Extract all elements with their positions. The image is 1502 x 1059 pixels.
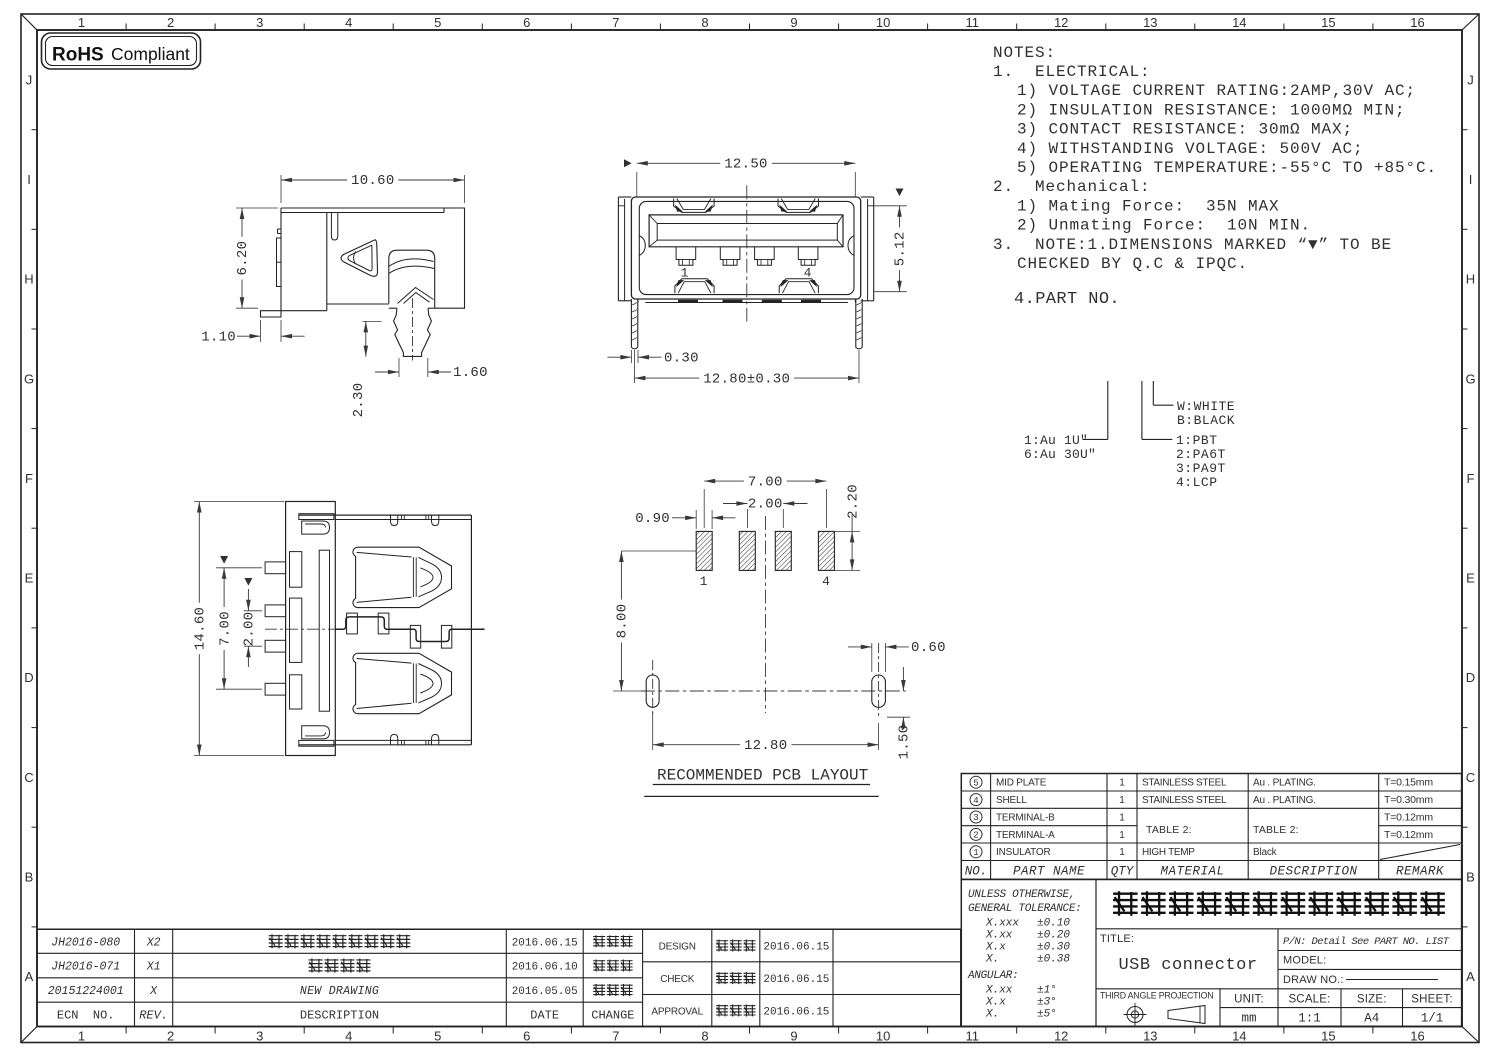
svg-text:NOTES:: NOTES: (993, 44, 1056, 62)
svg-text:0.90: 0.90 (635, 511, 670, 527)
dim 12.80±0.30 (634, 350, 859, 387)
top view plastic body (265, 502, 335, 756)
svg-text:2.30: 2.30 (351, 383, 367, 418)
svg-text:SHEET:: SHEET: (1411, 993, 1452, 1005)
svg-text:10: 10 (876, 15, 890, 30)
svg-text:8: 8 (701, 15, 708, 30)
svg-text:1: 1 (78, 15, 85, 30)
top view center contacts (265, 613, 485, 648)
svg-text:15: 15 (1321, 15, 1335, 30)
svg-text:A: A (1466, 969, 1475, 984)
svg-text:RoHS: RoHS (52, 45, 104, 66)
svg-text:5: 5 (434, 1029, 441, 1044)
svg-text:SIZE:: SIZE: (1357, 993, 1387, 1005)
svg-text:MODEL:: MODEL: (1283, 955, 1326, 967)
svg-text:DESCRIPTION: DESCRIPTION (300, 1008, 379, 1022)
svg-text:±0.10: ±0.10 (1037, 918, 1070, 930)
dim 10.60 (281, 173, 465, 203)
svg-text:3: 3 (973, 813, 978, 823)
front view centerline (746, 185, 748, 321)
dim 7.00 (pcb) (704, 474, 826, 528)
part number legend tree (1024, 381, 1235, 490)
svg-text:1.10: 1.10 (201, 329, 236, 345)
svg-text:1) VOLTAGE CURRENT RATING:2AMP: 1) VOLTAGE CURRENT RATING:2AMP,30V AC; (1017, 82, 1416, 100)
svg-text:1.50: 1.50 (897, 725, 913, 760)
svg-text:6:Au 30U″: 6:Au 30U″ (1024, 447, 1096, 462)
svg-text:1: 1 (973, 848, 978, 858)
svg-text:1: 1 (681, 266, 689, 281)
svg-text:11: 11 (965, 15, 979, 30)
svg-text:2. Mechanical:: 2. Mechanical: (993, 178, 1151, 196)
dim 1.60 (375, 358, 488, 381)
svg-text:F: F (25, 471, 33, 486)
svg-text:10.60: 10.60 (351, 173, 395, 189)
svg-text:X.x: X.x (985, 997, 1006, 1009)
svg-text:W:WHITE: W:WHITE (1177, 399, 1235, 414)
front view contacts (676, 247, 818, 281)
svg-text:CHANGE: CHANGE (591, 1008, 634, 1022)
svg-text:HIGH TEMP: HIGH TEMP (1142, 847, 1195, 858)
svg-text:DATE: DATE (530, 1008, 559, 1022)
svg-text:0.30: 0.30 (664, 350, 699, 366)
svg-text:5: 5 (973, 779, 978, 789)
svg-text:P/N: Detail See PART NO. LIST: P/N: Detail See PART NO. LIST (1283, 936, 1450, 948)
svg-text:STAINLESS STEEL: STAINLESS STEEL (1142, 778, 1227, 789)
svg-text:20151224001: 20151224001 (48, 985, 124, 998)
svg-text:2.00: 2.00 (242, 612, 258, 647)
svg-text:SCALE:: SCALE: (1288, 993, 1330, 1005)
pcb layout pads (696, 531, 834, 589)
svg-text:I: I (27, 172, 31, 187)
svg-text:RECOMMENDED PCB LAYOUT: RECOMMENDED PCB LAYOUT (657, 767, 868, 785)
svg-text:THIRD ANGLE PROJECTION: THIRD ANGLE PROJECTION (1100, 991, 1213, 1001)
svg-text:A4: A4 (1364, 1011, 1379, 1025)
svg-text:G: G (24, 371, 34, 386)
top view shell (299, 514, 472, 747)
svg-text:B: B (25, 870, 34, 885)
svg-text:3:PA9T: 3:PA9T (1176, 461, 1226, 476)
svg-text:2016.06.15: 2016.06.15 (763, 1007, 829, 1019)
svg-text:X: X (149, 985, 158, 998)
svg-text:X.xx: X.xx (985, 985, 1013, 997)
revision header row (57, 1008, 635, 1022)
svg-text:TABLE 2:: TABLE 2: (1253, 824, 1299, 836)
svg-text:±0.20: ±0.20 (1037, 930, 1070, 942)
svg-text:APPROVAL: APPROVAL (651, 1007, 703, 1018)
svg-text:4: 4 (345, 15, 352, 30)
svg-text:7: 7 (612, 15, 619, 30)
svg-text:T=0.12mm: T=0.12mm (1384, 829, 1433, 841)
top view spring latches (353, 547, 452, 714)
svg-text:TERMINAL-B: TERMINAL-B (996, 812, 1055, 823)
svg-text:T=0.12mm: T=0.12mm (1384, 811, 1433, 823)
svg-text:B:BLACK: B:BLACK (1177, 413, 1235, 428)
svg-text:4: 4 (973, 796, 978, 806)
svg-text:H: H (1466, 272, 1475, 287)
title block grid (961, 879, 1461, 1026)
svg-text:4) WITHSTANDING VOLTAGE: 500V: 4) WITHSTANDING VOLTAGE: 500V AC; (1017, 140, 1364, 158)
svg-text:REMARK: REMARK (1396, 864, 1444, 878)
svg-text:1. ELECTRICAL:: 1. ELECTRICAL: (993, 63, 1151, 81)
svg-text:10: 10 (876, 1029, 890, 1044)
svg-text:H: H (24, 272, 33, 287)
svg-text:3. NOTE:1.DIMENSIONS MARKED “: 3. NOTE:1.DIMENSIONS MARKED “▼” TO BE (993, 236, 1392, 254)
remark diagonal (1380, 845, 1460, 860)
svg-text:2) Unmating Force: 10N MIN.: 2) Unmating Force: 10N MIN. (1017, 217, 1311, 235)
svg-text:D: D (1466, 670, 1475, 685)
svg-text:5) OPERATING TEMPERATURE:-55°C: 5) OPERATING TEMPERATURE:-55°C TO +85°C. (1017, 159, 1437, 177)
svg-text:6: 6 (523, 15, 530, 30)
parts list table grid (961, 774, 1461, 880)
dim 2.30 (351, 321, 382, 417)
svg-text:USB connector: USB connector (1118, 956, 1257, 975)
company name (CJK) (1113, 891, 1445, 916)
recommended pcb layout heading (644, 767, 878, 797)
svg-text:C: C (24, 770, 33, 785)
svg-text:13: 13 (1143, 15, 1157, 30)
svg-text:TABLE 2:: TABLE 2: (1146, 824, 1192, 836)
svg-text:TITLE:: TITLE: (1100, 933, 1134, 945)
svg-text:9: 9 (790, 15, 797, 30)
svg-text:3: 3 (256, 15, 263, 30)
svg-text:3) CONTACT RESISTANCE: 30mΩ MA: 3) CONTACT RESISTANCE: 30mΩ MAX; (1017, 121, 1353, 139)
svg-text:14.60: 14.60 (193, 607, 209, 651)
parts list header (965, 864, 1444, 878)
svg-text:REV.: REV. (139, 1008, 168, 1022)
svg-text:14: 14 (1232, 1029, 1246, 1044)
svg-text:12.80: 12.80 (744, 738, 788, 754)
dim 0.90 (635, 510, 735, 529)
svg-text:2016.06.10: 2016.06.10 (512, 962, 578, 974)
third angle projection cell (1100, 991, 1213, 1027)
svg-text:C: C (1466, 770, 1475, 785)
svg-text:B: B (1466, 870, 1475, 885)
svg-text:8: 8 (701, 1029, 708, 1044)
svg-text:1) Mating Force: 35N MAX: 1) Mating Force: 35N MAX (1017, 197, 1280, 215)
dim 0.60 (848, 640, 946, 672)
svg-text:7: 7 (612, 1029, 619, 1044)
svg-text:±0.38: ±0.38 (1037, 954, 1070, 966)
svg-text:CHECK: CHECK (660, 974, 695, 985)
svg-text:7.00: 7.00 (748, 474, 783, 490)
svg-text:1:Au 1U″: 1:Au 1U″ (1024, 433, 1088, 448)
svg-text:1:1: 1:1 (1298, 1011, 1321, 1025)
parts list text (996, 777, 1433, 859)
svg-text:±5°: ±5° (1037, 1009, 1057, 1021)
svg-text:QTY: QTY (1111, 864, 1135, 878)
svg-text:X.: X. (985, 954, 999, 966)
svg-text:mm: mm (1241, 1011, 1256, 1025)
svg-text:12.80±0.30: 12.80±0.30 (703, 371, 790, 387)
svg-text:2016.06.15: 2016.06.15 (763, 942, 829, 954)
svg-text:6: 6 (523, 1029, 530, 1044)
dim 5.12 (874, 189, 909, 292)
svg-text:I: I (1469, 172, 1473, 187)
svg-text:4:LCP: 4:LCP (1176, 475, 1218, 490)
svg-text:1.60: 1.60 (453, 365, 488, 381)
svg-text:11: 11 (965, 1029, 979, 1044)
svg-text:J: J (26, 72, 33, 87)
svg-text:G: G (1465, 371, 1475, 386)
pcb slots (646, 675, 885, 707)
svg-text:D: D (24, 670, 33, 685)
svg-text:NO.: NO. (965, 864, 988, 878)
svg-text:12: 12 (1054, 15, 1068, 30)
svg-text:UNLESS OTHERWISE,: UNLESS OTHERWISE, (968, 889, 1075, 901)
dim 2.00 (top view) (242, 578, 262, 667)
svg-text:2016.05.05: 2016.05.05 (512, 986, 578, 998)
svg-text:±1°: ±1° (1037, 985, 1057, 997)
dim 0.30 (607, 350, 698, 366)
svg-text:JH2016-071: JH2016-071 (51, 961, 120, 974)
column reference numbers top (78, 15, 1425, 30)
svg-text:1:PBT: 1:PBT (1176, 433, 1218, 448)
svg-text:14: 14 (1232, 15, 1246, 30)
svg-text:T=0.30mm: T=0.30mm (1384, 794, 1433, 806)
svg-text:13: 13 (1143, 1029, 1157, 1044)
svg-text:CHECKED BY Q.C & IPQC.: CHECKED BY Q.C & IPQC. (1017, 255, 1248, 273)
svg-text:ANGULAR:: ANGULAR: (967, 970, 1018, 982)
svg-text:GENERAL TOLERANCE:: GENERAL TOLERANCE: (968, 903, 1081, 915)
svg-text:4: 4 (345, 1029, 352, 1044)
svg-text:1: 1 (1119, 812, 1125, 823)
svg-text:INSULATOR: INSULATOR (996, 847, 1051, 858)
revision table grid (37, 929, 961, 1026)
svg-text:F: F (1467, 471, 1475, 486)
row reference letters right (1462, 72, 1476, 984)
svg-text:DRAW NO.:: DRAW NO.: (1283, 974, 1344, 986)
svg-text:1: 1 (700, 574, 708, 589)
svg-text:DESIGN: DESIGN (659, 942, 696, 953)
svg-text:NEW DRAWING: NEW DRAWING (300, 985, 379, 998)
svg-text:X.: X. (985, 1009, 999, 1021)
front view outline (618, 197, 873, 301)
svg-text:Au . PLATING.: Au . PLATING. (1253, 795, 1316, 806)
front view bottom flange and legs (631, 299, 862, 349)
title cell (1100, 933, 1258, 975)
svg-text:5.12: 5.12 (893, 231, 909, 266)
svg-text:8.00: 8.00 (615, 604, 631, 639)
svg-text:1: 1 (78, 1029, 85, 1044)
svg-text:1: 1 (1119, 778, 1125, 789)
side view outline (261, 208, 465, 361)
dim 1.50 (887, 667, 913, 759)
svg-text:6.20: 6.20 (235, 241, 251, 276)
svg-text:SHELL: SHELL (996, 795, 1027, 806)
svg-text:16: 16 (1410, 1029, 1424, 1044)
pcb centerlines (641, 516, 906, 719)
svg-text:9: 9 (790, 1029, 797, 1044)
svg-text:±0.30: ±0.30 (1037, 942, 1070, 954)
svg-text:STAINLESS STEEL: STAINLESS STEEL (1142, 795, 1227, 806)
column reference numbers bottom (78, 1027, 1425, 1044)
RoHS Compliant badge (42, 33, 201, 69)
svg-text:4: 4 (804, 266, 812, 281)
svg-text:±3°: ±3° (1037, 997, 1057, 1009)
svg-text:Au . PLATING.: Au . PLATING. (1253, 778, 1316, 789)
svg-text:E: E (1466, 571, 1475, 586)
svg-text:7.00: 7.00 (217, 611, 233, 646)
svg-text:X2: X2 (146, 936, 161, 949)
approval section (651, 940, 829, 1019)
row reference letters left (24, 72, 37, 984)
svg-text:X1: X1 (146, 961, 161, 974)
svg-text:3: 3 (256, 1029, 263, 1044)
svg-text:4: 4 (822, 574, 830, 589)
svg-text:Compliant: Compliant (111, 44, 190, 64)
svg-text:1/1: 1/1 (1421, 1011, 1444, 1025)
svg-text:ECN NO.: ECN NO. (57, 1008, 115, 1022)
svg-text:12: 12 (1054, 1029, 1068, 1044)
svg-text:UNIT:: UNIT: (1234, 993, 1264, 1005)
svg-text:1: 1 (1119, 847, 1125, 858)
tolerance block text (967, 889, 1081, 1021)
svg-text:2:PA6T: 2:PA6T (1176, 447, 1226, 462)
svg-text:15: 15 (1321, 1029, 1335, 1044)
svg-text:2016.06.15: 2016.06.15 (763, 974, 829, 986)
svg-text:JH2016-080: JH2016-080 (51, 936, 120, 949)
svg-text:MATERIAL: MATERIAL (1160, 864, 1224, 878)
parts list circled item numbers (970, 776, 982, 858)
svg-text:DESCRIPTION: DESCRIPTION (1269, 864, 1357, 878)
dim 6.20 (235, 208, 278, 308)
svg-text:4.PART NO.: 4.PART NO. (1014, 290, 1120, 309)
svg-text:2: 2 (167, 1029, 174, 1044)
svg-text:2.20: 2.20 (845, 484, 861, 519)
svg-text:PART NAME: PART NAME (1013, 864, 1085, 878)
svg-text:1: 1 (1119, 795, 1125, 806)
pn model draw cells (1283, 936, 1450, 986)
svg-text:J: J (1467, 72, 1474, 87)
svg-text:16: 16 (1410, 15, 1424, 30)
svg-text:5: 5 (434, 15, 441, 30)
svg-text:2) INSULATION RESISTANCE: 1000: 2) INSULATION RESISTANCE: 1000MΩ MIN; (1017, 101, 1406, 119)
svg-text:T=0.15mm: T=0.15mm (1384, 777, 1433, 789)
svg-text:X.xx: X.xx (985, 930, 1013, 942)
dim 14.60 (193, 502, 285, 756)
svg-text:1: 1 (1119, 830, 1125, 841)
svg-text:12.50: 12.50 (724, 157, 768, 173)
svg-text:2.00: 2.00 (748, 497, 783, 513)
dim 2.20 (834, 484, 861, 570)
dim 12.80 (pcb) (653, 712, 879, 754)
svg-text:2016.06.15: 2016.06.15 (512, 937, 578, 949)
svg-text:E: E (25, 571, 34, 586)
dim 2.00 (pcb) (723, 497, 808, 528)
svg-text:MID PLATE: MID PLATE (996, 778, 1047, 789)
notes text block (993, 44, 1437, 309)
svg-text:TERMINAL-A: TERMINAL-A (996, 830, 1055, 841)
svg-text:X.x: X.x (985, 942, 1006, 954)
dim 1.10 (201, 320, 304, 345)
dim 7.00 (top view) (216, 556, 262, 689)
svg-text:2: 2 (973, 831, 978, 841)
svg-text:0.60: 0.60 (911, 640, 946, 656)
revision rows (48, 934, 633, 998)
svg-text:A: A (25, 969, 34, 984)
svg-text:Black: Black (1253, 847, 1278, 858)
dim 12.50 (624, 157, 855, 198)
unit scale size sheet (1234, 993, 1453, 1025)
dim 8.00 (613, 551, 696, 691)
svg-text:2: 2 (167, 15, 174, 30)
svg-text:X.xxx: X.xxx (985, 918, 1019, 930)
